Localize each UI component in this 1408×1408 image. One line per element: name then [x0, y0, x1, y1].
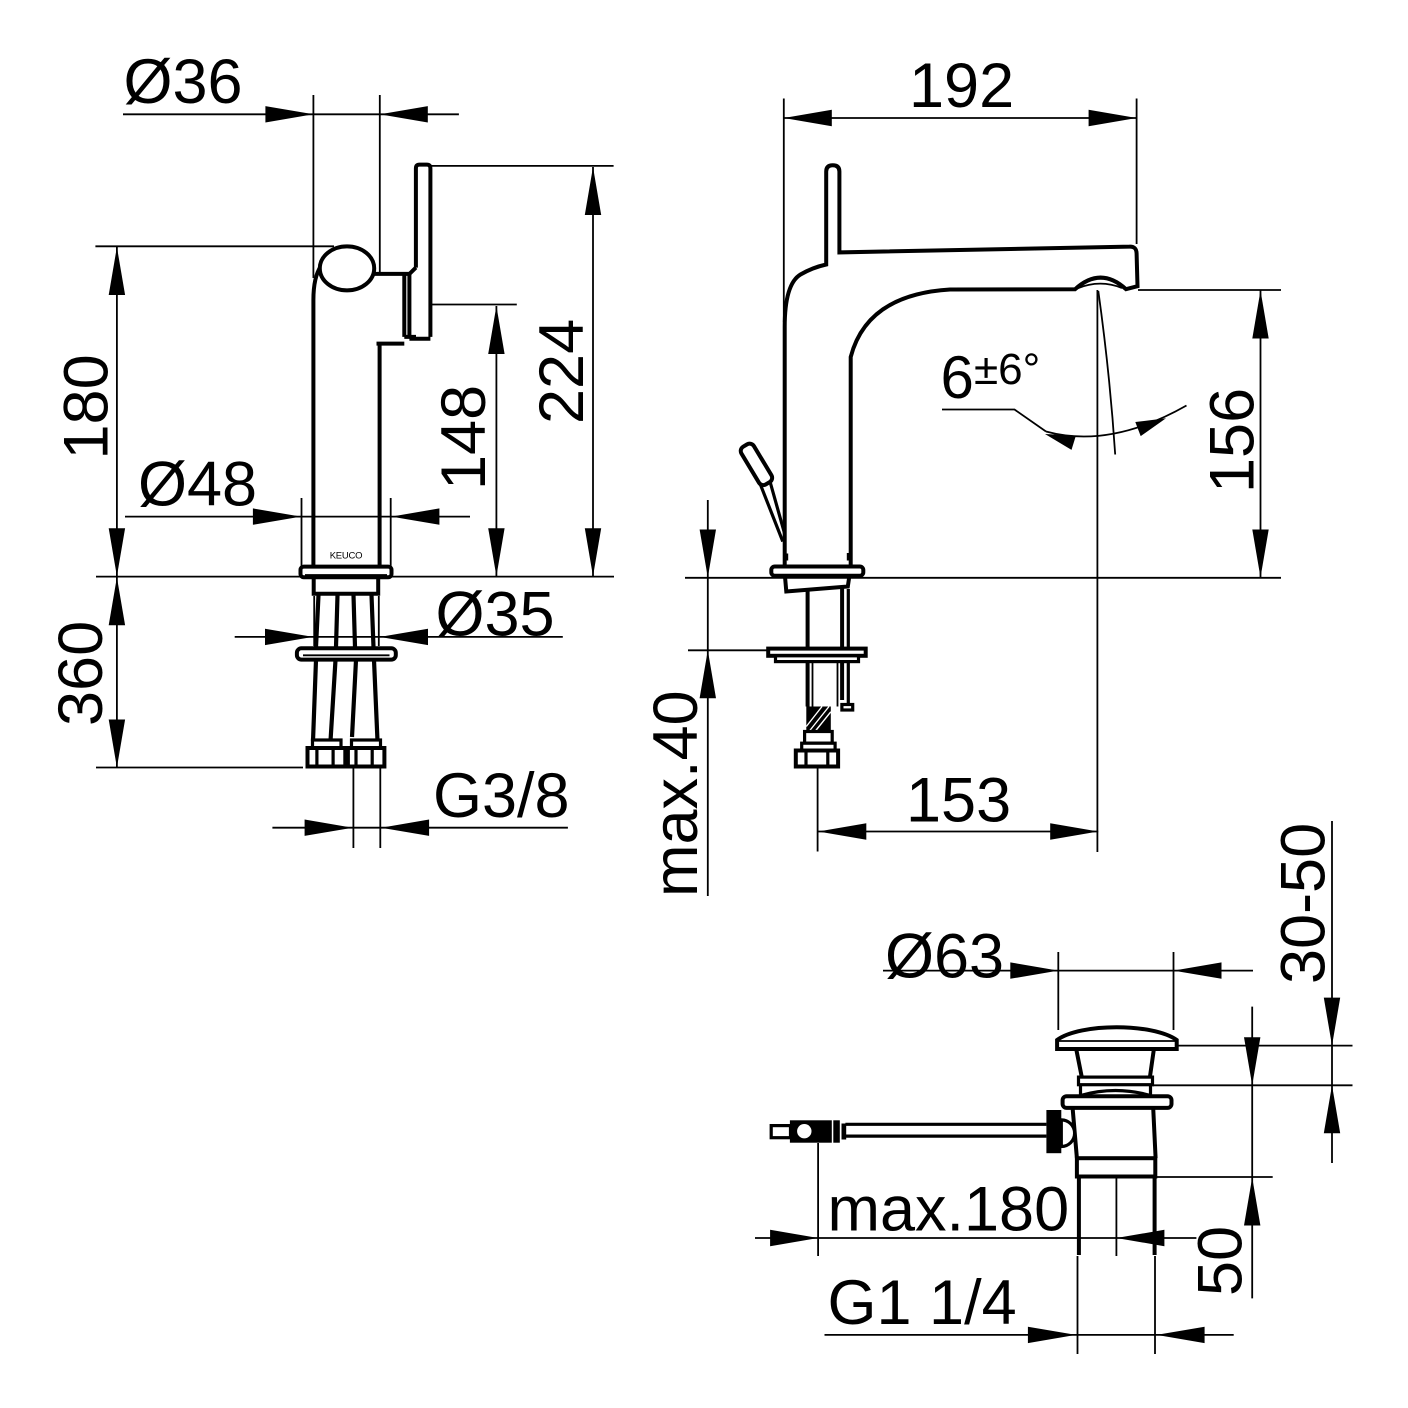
svg-text:Ø35: Ø35 — [436, 580, 555, 650]
svg-text:6: 6 — [941, 344, 974, 411]
washer — [768, 649, 866, 656]
svg-text:Ø36: Ø36 — [124, 47, 243, 117]
escutcheon — [297, 648, 396, 659]
basin bottom surface line — [1150, 1084, 1353, 1086]
ext line 180 top — [95, 245, 334, 247]
dim line 50 — [1251, 1007, 1253, 1299]
plug seal arc — [1081, 1085, 1151, 1097]
pull rod tube — [847, 589, 850, 705]
svg-text:KEUCO: KEUCO — [330, 551, 363, 562]
svg-text:180: 180 — [52, 354, 122, 459]
dim line 153 — [818, 831, 1098, 833]
ext line 360 bottom — [96, 767, 303, 769]
svg-text:50: 50 — [1186, 1226, 1256, 1296]
arrows 50 — [1244, 1037, 1260, 1225]
arrows 148 — [488, 306, 504, 576]
ext line O48 left — [301, 498, 303, 569]
ext line G3/8 left — [352, 768, 354, 849]
ext line 192 right — [1136, 99, 1138, 245]
plug rings — [1079, 1077, 1153, 1085]
body base ticks — [783, 554, 788, 561]
stream 6 deg tilted line — [1098, 291, 1115, 455]
aerator inner arc — [1077, 284, 1122, 289]
ext line 192 left — [783, 99, 785, 323]
lever knob (side view) — [739, 442, 774, 487]
dim line 224 — [592, 167, 594, 576]
svg-text:30-50: 30-50 — [1269, 823, 1339, 984]
svg-text:G1 1/4: G1 1/4 — [828, 1268, 1017, 1338]
arrows 192 — [784, 110, 1137, 126]
threaded shank (front view) — [314, 578, 379, 594]
svg-text:Ø63: Ø63 — [885, 922, 1004, 992]
handle lever (front view) — [409, 165, 430, 339]
arrows G1 1/4 — [1028, 1327, 1205, 1343]
escutcheon trapezoid (side view) — [785, 577, 849, 592]
base flange (front view) — [301, 567, 392, 578]
hose connector — [805, 732, 833, 744]
ext line O35 left — [313, 596, 315, 646]
valve body — [1073, 1108, 1156, 1158]
waste flange plate — [1063, 1096, 1172, 1108]
supply hoses below escutcheon — [313, 660, 378, 741]
dim line max.40 — [707, 500, 709, 896]
lever stem — [760, 482, 785, 542]
ext line max.40 bottom — [688, 649, 768, 651]
arrows 180 — [109, 247, 125, 576]
svg-text:156: 156 — [1198, 388, 1268, 493]
arrows O48 — [253, 508, 440, 524]
arrows 156 — [1252, 291, 1268, 578]
svg-text:153: 153 — [906, 766, 1011, 836]
supply hoses above escutcheon — [316, 595, 374, 647]
arrows 153 — [818, 823, 1098, 839]
base flange (side view) — [771, 567, 863, 576]
dim line 30-50 — [1331, 821, 1333, 1163]
handle connector arm — [372, 274, 416, 344]
arrows G3/8 — [305, 820, 430, 836]
ext line O63 left — [1057, 952, 1059, 1030]
ball joint housing — [1046, 1110, 1061, 1153]
arrows O36 — [265, 106, 427, 122]
flexible hose (hatched) — [806, 707, 831, 732]
angle arc arrows — [1045, 418, 1166, 450]
hex nut right — [348, 748, 385, 767]
dim line 192 — [784, 117, 1137, 119]
svg-text:G3/8: G3/8 — [433, 761, 570, 831]
ext line G1 left — [1077, 1256, 1079, 1354]
ext line G1 right — [1154, 1256, 1156, 1354]
ext line O36 right — [379, 95, 381, 272]
spout body outline (side view) — [785, 165, 1138, 567]
plug neck — [1076, 1049, 1154, 1077]
dim line O35 — [235, 636, 563, 638]
arrows O35 — [265, 629, 428, 645]
ext line O48 right — [390, 498, 392, 569]
ext line valve bottom — [1156, 1176, 1273, 1178]
mounting deck line front view — [96, 576, 614, 578]
tailpipe — [1079, 1177, 1155, 1256]
ext line 148 top — [431, 304, 517, 306]
basin top surface line — [1177, 1045, 1353, 1047]
dim line O36 — [123, 113, 459, 115]
faucet body right edge (front view) — [378, 344, 382, 567]
rod knob — [790, 1120, 832, 1142]
ext line O35 right — [378, 596, 380, 646]
dim line O63 — [883, 970, 1253, 972]
pivot ball — [320, 246, 374, 290]
ext line 156 top — [1138, 289, 1281, 291]
threaded shank (side view) — [808, 587, 843, 649]
svg-text:±6°: ±6° — [974, 345, 1040, 394]
hex nut (side view) — [796, 751, 838, 767]
ext line max.180 left — [817, 1143, 819, 1256]
angle arc — [1046, 406, 1187, 437]
svg-text:224: 224 — [527, 319, 597, 424]
valve bottom band — [1077, 1158, 1155, 1176]
cap rim line — [1057, 1040, 1177, 1042]
svg-text:Ø48: Ø48 — [138, 450, 257, 520]
svg-text:192: 192 — [909, 51, 1014, 121]
dim line max.180 — [755, 1237, 1196, 1239]
svg-text:max.180: max.180 — [828, 1175, 1070, 1245]
operating rod — [845, 1124, 1046, 1136]
dim line 148 — [495, 306, 497, 576]
ext line O63 right — [1173, 952, 1175, 1030]
angle leader line — [942, 410, 1046, 432]
arrows 360 — [109, 577, 125, 767]
ext line 224 top — [431, 165, 614, 167]
hex nut left — [308, 748, 346, 767]
water stream vertical line — [1096, 290, 1098, 852]
dim line G3/8 — [272, 827, 568, 829]
drain plug cap dome — [1057, 1027, 1177, 1049]
escutcheon inner line — [303, 654, 390, 656]
dim line 156 — [1260, 291, 1262, 578]
arrows 224 — [585, 167, 601, 576]
dim line G1 1/4 — [825, 1334, 1234, 1336]
rod spacers — [833, 1120, 840, 1142]
faucet body left edge (front view) — [313, 266, 321, 567]
center line below faucet — [817, 767, 819, 852]
arrows O63 — [1010, 962, 1221, 978]
dim line O48 — [125, 516, 470, 518]
svg-text:360: 360 — [46, 621, 116, 726]
ext line G3/8 right — [379, 768, 381, 849]
arrows 30-50 — [1324, 998, 1340, 1134]
dim line 180+360 — [116, 247, 118, 768]
deck line side view — [685, 577, 1281, 579]
svg-text:max.40: max.40 — [641, 690, 711, 897]
svg-text:148: 148 — [429, 385, 499, 490]
flange inner line — [305, 574, 387, 576]
hose crimp sleeves — [313, 740, 342, 748]
ext line O36 left — [312, 95, 314, 278]
rod tip — [771, 1126, 790, 1138]
arrows max.180 — [770, 1230, 1164, 1246]
shank below nut — [808, 662, 843, 707]
arrows max.40 — [700, 530, 716, 699]
drain center line — [1115, 1176, 1117, 1256]
mounting nut — [776, 656, 859, 662]
